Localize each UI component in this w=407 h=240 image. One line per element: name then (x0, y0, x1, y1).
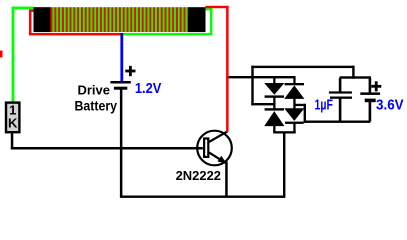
svg-text:K: K (8, 116, 18, 131)
svg-text:2N2222: 2N2222 (176, 168, 221, 183)
svg-text:Battery: Battery (75, 97, 118, 113)
svg-text:3.6V: 3.6V (376, 97, 404, 114)
svg-text:Drive: Drive (78, 83, 111, 98)
svg-text:1µF: 1µF (315, 97, 333, 114)
svg-text:1.2V: 1.2V (135, 80, 162, 97)
